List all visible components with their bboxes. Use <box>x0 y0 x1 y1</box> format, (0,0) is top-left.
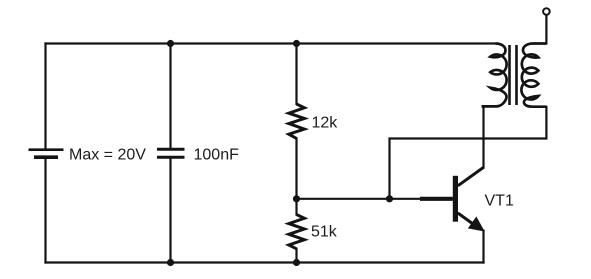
svg-text:Max = 20V: Max = 20V <box>69 147 146 164</box>
transformer primary winding <box>482 44 507 107</box>
node bottom capacitor junction <box>167 259 174 266</box>
wire emitter vertical <box>482 231 484 263</box>
transformer core <box>510 45 517 105</box>
node base junction <box>386 195 393 202</box>
svg-text:VT1: VT1 <box>485 193 514 210</box>
svg-text:100nF: 100nF <box>194 147 240 164</box>
wire collector vertical <box>482 107 484 168</box>
node divider junction <box>293 195 300 202</box>
resistor 12k <box>289 104 305 138</box>
node bottom 51k junction <box>293 259 300 266</box>
wire capacitor branch lower <box>169 159 171 263</box>
wire 51k branch lower <box>295 249 297 263</box>
wire left rail lower <box>44 159 46 263</box>
svg-text:51k: 51k <box>311 224 338 241</box>
wire top rail <box>46 42 498 44</box>
wire 51k branch upper <box>295 199 297 215</box>
transistor VT1 <box>420 167 484 231</box>
node top 12k junction <box>293 40 300 47</box>
svg-text:12k: 12k <box>312 115 339 132</box>
transformer secondary winding <box>521 44 546 107</box>
wire 12k branch upper <box>295 44 297 105</box>
wire 12k branch lower <box>295 138 297 198</box>
node top capacitor junction <box>167 40 174 47</box>
battery Max = 20V <box>29 150 64 158</box>
wire capacitor branch upper <box>169 44 171 148</box>
wire base row <box>297 198 453 200</box>
output terminal <box>543 8 550 15</box>
wire terminal lead <box>545 15 547 44</box>
wire left rail upper <box>44 44 46 149</box>
capacitor 100nF <box>157 149 185 157</box>
wire feedback from secondary to base node <box>390 107 547 199</box>
resistor 51k <box>289 215 305 249</box>
wire bottom rail <box>46 261 484 263</box>
